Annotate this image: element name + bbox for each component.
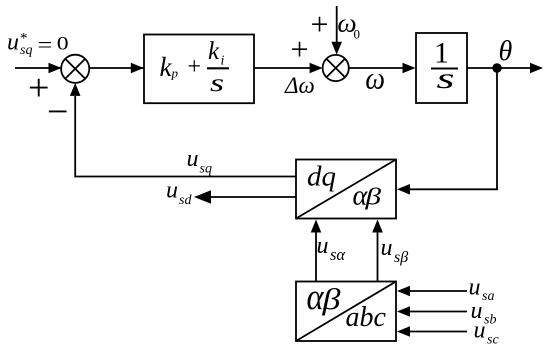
svg-text:k: k bbox=[208, 38, 220, 65]
svg-text:sb: sb bbox=[484, 313, 496, 328]
svg-text:sq: sq bbox=[20, 43, 32, 58]
svg-text:0: 0 bbox=[354, 27, 361, 42]
svg-text:u: u bbox=[469, 275, 481, 301]
svg-text:s: s bbox=[210, 69, 224, 97]
svg-text:u: u bbox=[317, 233, 329, 259]
svg-text:θ: θ bbox=[499, 36, 513, 67]
svg-text:−: − bbox=[47, 91, 68, 133]
svg-text:sc: sc bbox=[487, 333, 499, 348]
svg-text:u: u bbox=[187, 146, 199, 172]
svg-text:p: p bbox=[171, 66, 179, 81]
svg-text:+: + bbox=[188, 54, 202, 80]
svg-text:sd: sd bbox=[179, 193, 192, 208]
svg-text:u: u bbox=[381, 235, 393, 261]
svg-text:α: α bbox=[307, 276, 325, 318]
svg-text:β: β bbox=[364, 184, 381, 211]
svg-text:u: u bbox=[166, 178, 178, 204]
svg-text:sα: sα bbox=[330, 245, 345, 264]
svg-text:=: = bbox=[38, 34, 53, 57]
svg-text:sq: sq bbox=[200, 162, 212, 177]
svg-text:β: β bbox=[321, 283, 341, 316]
svg-text:s: s bbox=[437, 62, 455, 95]
svg-text:i: i bbox=[221, 54, 225, 69]
svg-text:dq: dq bbox=[307, 161, 336, 193]
svg-text:u: u bbox=[474, 318, 486, 344]
svg-text:+: + bbox=[291, 31, 309, 67]
svg-text:abc: abc bbox=[346, 302, 387, 333]
svg-text:0: 0 bbox=[57, 33, 69, 54]
svg-text:ω: ω bbox=[365, 61, 385, 96]
svg-text:Δω: Δω bbox=[284, 73, 315, 98]
svg-text:u: u bbox=[7, 30, 19, 56]
svg-text:+: + bbox=[311, 6, 329, 42]
svg-text:sa: sa bbox=[482, 289, 494, 304]
svg-text:sβ: sβ bbox=[394, 249, 408, 266]
